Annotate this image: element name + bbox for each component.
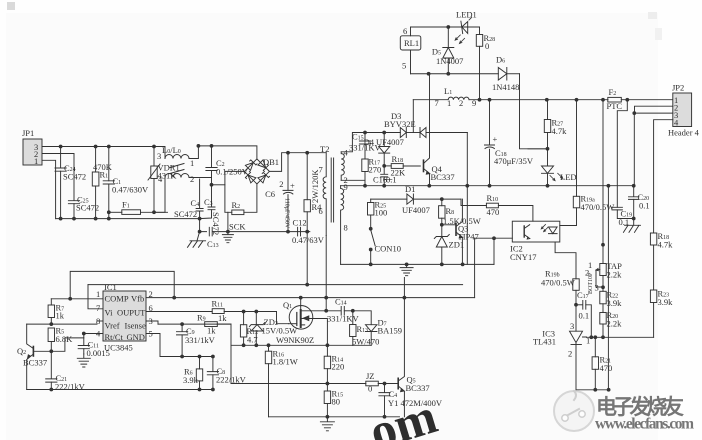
svg-text:9: 9 bbox=[344, 182, 348, 192]
svg-text:0: 0 bbox=[368, 384, 372, 394]
svg-text:470/0.5W: 470/0.5W bbox=[541, 278, 575, 288]
svg-text:6: 6 bbox=[319, 206, 323, 216]
wire R9 down to JZ line bbox=[230, 324, 232, 383]
signal ground (C11) bbox=[77, 354, 90, 367]
wire choke pin4 down to F1 line bbox=[154, 178, 165, 212]
wire feedback top loop bbox=[70, 271, 174, 298]
LED inside bbox=[541, 225, 548, 232]
svg-text:TL431: TL431 bbox=[533, 337, 556, 347]
resistor R28 0ohm bbox=[476, 27, 495, 100]
svg-text:+: + bbox=[290, 181, 295, 191]
transformer T2 bbox=[319, 144, 349, 264]
svg-text:IC1: IC1 bbox=[104, 282, 117, 292]
svg-text:100: 100 bbox=[375, 208, 388, 218]
svg-text:470/0.5W: 470/0.5W bbox=[581, 202, 615, 212]
svg-text:220: 220 bbox=[332, 362, 345, 372]
svg-text:1k: 1k bbox=[207, 326, 216, 336]
svg-text:1k: 1k bbox=[56, 311, 65, 321]
svg-text:C6: C6 bbox=[265, 189, 275, 199]
svg-text:Rt/Ct: Rt/Ct bbox=[105, 332, 124, 342]
svg-text:80: 80 bbox=[332, 397, 341, 407]
transistor Q2 BC337 bbox=[17, 324, 51, 389]
svg-text:5: 5 bbox=[402, 61, 406, 71]
resistor R19b 470/0.5W bbox=[541, 269, 579, 332]
wire divider tap from F2 input bbox=[602, 100, 604, 245]
svg-text:1.8/1W: 1.8/1W bbox=[273, 357, 298, 367]
capacitor C16 0.1 bbox=[373, 166, 397, 186]
dual diode D3 BYV32E bbox=[384, 111, 467, 138]
resistor R21 470 bbox=[592, 337, 612, 390]
svg-text:1: 1 bbox=[34, 156, 38, 166]
svg-text:4.7k: 4.7k bbox=[552, 126, 568, 136]
wire aux C12 node down to Vcc line bbox=[306, 232, 308, 285]
capacitor C9 331/1kV bbox=[177, 324, 216, 356]
watermark text elecfans bbox=[595, 395, 694, 433]
svg-text:SC472: SC472 bbox=[63, 172, 86, 182]
T2 primary winding bbox=[323, 153, 326, 236]
svg-text:222/1kV: 222/1kV bbox=[55, 382, 86, 392]
signal ground symbol bbox=[400, 264, 413, 275]
svg-text:BC337: BC337 bbox=[431, 172, 455, 182]
wire Isense pin3 bbox=[146, 321, 158, 324]
svg-text:BYV32E: BYV32E bbox=[384, 119, 416, 129]
capacitor C25 bbox=[68, 195, 99, 219]
wire JP1 pin1 down to bottom rail bbox=[42, 160, 56, 218]
LED output indicator bbox=[542, 149, 577, 186]
varistor VDR1 431K bbox=[148, 147, 180, 213]
wire Rt/Ct pin4 bbox=[84, 333, 103, 335]
wire Vref pin8 stub bbox=[97, 320, 103, 322]
wire T2 pin2 line bbox=[341, 179, 365, 181]
svg-text:3: 3 bbox=[570, 321, 574, 331]
capacitor C1 0.47/630V bbox=[103, 147, 149, 219]
wire Q2 base node to Rt/Ct bbox=[51, 334, 84, 352]
MOSFET Q1 W9NK90Z bbox=[276, 300, 314, 345]
svg-text:C12: C12 bbox=[293, 218, 307, 228]
resistor R11 1k bbox=[212, 299, 277, 324]
svg-text:ZD1: ZD1 bbox=[449, 240, 465, 250]
wire R19a to IC2 pin1 bbox=[560, 208, 577, 226]
capacitor C4 Y1 472M/400V bbox=[379, 384, 443, 419]
svg-text:0.47/630V: 0.47/630V bbox=[112, 185, 149, 195]
capacitor C18 470uF/35V bbox=[485, 100, 534, 186]
jumper JZ 0 bbox=[366, 371, 393, 394]
chassis ground (left of C13) bbox=[188, 232, 206, 248]
resistor R22 3.9k bbox=[600, 276, 622, 309]
switch CON10 bbox=[369, 227, 401, 264]
wire bridge right to DC+ rail bbox=[269, 153, 326, 172]
optocoupler IC2 CNY17 bbox=[510, 221, 560, 262]
wire output rail down (return) bbox=[607, 186, 609, 390]
svg-text:RL1: RL1 bbox=[404, 38, 419, 48]
resistor R18b 4.7k bbox=[650, 231, 673, 290]
svg-text:0: 0 bbox=[485, 41, 489, 51]
svg-text:1k: 1k bbox=[218, 313, 227, 323]
svg-text:331/1kV: 331/1kV bbox=[185, 335, 216, 345]
svg-text:LED1: LED1 bbox=[456, 10, 477, 20]
svg-text:GND: GND bbox=[127, 332, 145, 342]
resistor R18 22K bbox=[384, 154, 420, 178]
resistor R12 4.7 bbox=[240, 312, 258, 346]
output line L1 to F2 bbox=[469, 99, 608, 101]
T2 upper secondary bbox=[341, 152, 344, 181]
capacitor C2 0.1/250V bbox=[206, 146, 249, 186]
svg-text:W9NK90Z: W9NK90Z bbox=[276, 335, 314, 345]
svg-text:1N4007: 1N4007 bbox=[436, 56, 463, 66]
svg-text:4.7k: 4.7k bbox=[658, 240, 674, 250]
svg-text:0.0015: 0.0015 bbox=[87, 348, 110, 358]
wire AC-B riser / bridge left bbox=[225, 171, 245, 212]
IC U1 UC3845 bbox=[96, 282, 153, 353]
chassis ground (secondary) bbox=[624, 219, 641, 233]
svg-text:470: 470 bbox=[487, 207, 500, 217]
svg-text:SCK: SCK bbox=[229, 222, 246, 232]
svg-text:PTC: PTC bbox=[607, 101, 623, 111]
svg-text:270: 270 bbox=[369, 165, 382, 175]
zener ZD1 bbox=[434, 225, 464, 265]
svg-text:0.1: 0.1 bbox=[579, 311, 590, 321]
wire JP2 pin4 bbox=[654, 120, 673, 233]
transistor Q3 TIP47 bbox=[442, 199, 479, 264]
capacitor C24 bbox=[55, 147, 86, 219]
resistor R20 2.2k bbox=[600, 304, 622, 338]
wire relay top to LED1/R28 bbox=[411, 26, 480, 28]
svg-text:3: 3 bbox=[157, 151, 161, 161]
wire T2 pin4 up to D3 line bbox=[341, 133, 400, 152]
JZ line (current sense) bbox=[231, 383, 366, 385]
svg-text:BC337: BC337 bbox=[23, 358, 47, 368]
svg-text:JP2: JP2 bbox=[672, 83, 684, 93]
wire F2 out jog to C19 bbox=[617, 100, 627, 208]
wire drain stub bbox=[300, 298, 302, 306]
wire D3 node down to output rail bbox=[466, 133, 468, 265]
transistor Q5 BC337 bbox=[378, 278, 429, 417]
svg-text:1N4148: 1N4148 bbox=[492, 82, 519, 92]
source line bbox=[231, 344, 353, 346]
wire choke pin2 to C2 column bbox=[189, 177, 212, 179]
wire JP1 pin2 down via C25 bbox=[42, 154, 74, 201]
svg-text:D4: D4 bbox=[364, 137, 375, 147]
svg-text:CNY17: CNY17 bbox=[510, 252, 536, 262]
connector JP1 bbox=[22, 128, 42, 166]
svg-text:OUPUT: OUPUT bbox=[117, 308, 146, 318]
capacitor C6 110uF/450V bbox=[265, 153, 295, 233]
wire GND pin5 bbox=[146, 334, 213, 357]
svg-text:7: 7 bbox=[319, 165, 323, 175]
svg-text:2.2k: 2.2k bbox=[607, 270, 623, 280]
wire T2 pin6 column lower part bbox=[325, 298, 327, 311]
wire T2 pin6 drain column bbox=[325, 236, 327, 298]
secondary ground rail bbox=[341, 263, 494, 265]
svg-text:BOT10P: BOT10P bbox=[588, 272, 594, 294]
resistor R19a 470/0.5W bbox=[573, 100, 614, 212]
svg-text:331/1KV: 331/1KV bbox=[327, 314, 360, 324]
wire R27 bottom line to left bbox=[528, 148, 548, 150]
wire COMP pin1 bbox=[51, 298, 103, 300]
svg-text:UF4007: UF4007 bbox=[402, 205, 430, 215]
diode D4 UF4007 bbox=[364, 133, 404, 168]
wire Q4 collector up to relay node bbox=[429, 74, 431, 156]
wire JP1 pin3 to choke (line N top) bbox=[42, 147, 165, 159]
svg-text:1: 1 bbox=[96, 289, 100, 299]
svg-text:2.2k: 2.2k bbox=[607, 319, 623, 329]
svg-text:0.47/63V: 0.47/63V bbox=[292, 235, 325, 245]
wire source jog bbox=[311, 319, 328, 346]
svg-text:1: 1 bbox=[190, 158, 194, 168]
svg-text:15V/0.5W: 15V/0.5W bbox=[262, 326, 298, 336]
fuse F1 bbox=[107, 200, 167, 215]
svg-text:SC472: SC472 bbox=[174, 209, 197, 219]
phototransistor inside bbox=[523, 226, 525, 237]
resistor R23 3.9k bbox=[650, 289, 673, 338]
capacitor C20 0.1 bbox=[629, 186, 650, 220]
watermark logo circle bbox=[554, 391, 594, 431]
svg-text:110μF/450V: 110μF/450V bbox=[284, 198, 290, 229]
svg-text:Vref: Vref bbox=[105, 321, 120, 331]
svg-text:2: 2 bbox=[568, 349, 572, 359]
svg-text:JP1: JP1 bbox=[22, 128, 34, 138]
bottom right ground rail bbox=[576, 389, 609, 391]
svg-text:+: + bbox=[493, 134, 498, 144]
resistor R5 6.8K bbox=[48, 326, 73, 353]
svg-text:3.9k: 3.9k bbox=[607, 298, 623, 308]
capacitor C13 bbox=[207, 227, 219, 249]
bottom rail (source network) bbox=[269, 416, 400, 418]
resistor R27 4.7k bbox=[544, 100, 567, 151]
svg-text:Isense: Isense bbox=[125, 321, 146, 331]
T2 lower secondary bbox=[341, 186, 344, 265]
primary ground line with C13 bbox=[200, 219, 310, 232]
wire Vfb long line bbox=[146, 297, 475, 299]
svg-text:6.8K: 6.8K bbox=[56, 334, 74, 344]
svg-text:470μF/35V: 470μF/35V bbox=[494, 156, 534, 166]
wire OUTPUT pin6 bbox=[146, 311, 212, 313]
thermistor SCK drop bbox=[227, 212, 229, 231]
capacitor C15 331/1KV bbox=[349, 132, 382, 160]
svg-text:COMP: COMP bbox=[105, 294, 129, 304]
relay RL1 bbox=[400, 26, 421, 74]
resistor R14 220 bbox=[324, 345, 344, 385]
wire JP2 pin2/pin3 bbox=[635, 106, 673, 113]
resistor R17 270 bbox=[362, 157, 381, 186]
svg-text:JZ: JZ bbox=[366, 371, 375, 381]
svg-text:0.1: 0.1 bbox=[639, 201, 650, 211]
trimmer TAP 2.2k bbox=[585, 245, 622, 294]
svg-text:DB1: DB1 bbox=[263, 157, 279, 167]
svg-text:3.9k: 3.9k bbox=[658, 297, 674, 307]
svg-text:Header 4: Header 4 bbox=[668, 128, 700, 138]
zener ZD2 15V/0.5W bbox=[249, 312, 297, 346]
wire gate bbox=[277, 312, 289, 324]
resistor R8 1.5K/0.5W bbox=[439, 199, 481, 226]
svg-text:CON10: CON10 bbox=[375, 244, 401, 254]
shunt reference IC3 TL431 bbox=[533, 321, 590, 390]
wire Vi pin7 bbox=[88, 285, 103, 309]
watermark diagonal .com bbox=[363, 387, 443, 440]
resistor R16 1.8/1W bbox=[265, 345, 297, 417]
bridge rectifier DB1 bbox=[244, 157, 279, 184]
svg-text:2: 2 bbox=[190, 174, 194, 184]
capacitor C8 222/1kV bbox=[207, 355, 246, 391]
svg-text:Vfb: Vfb bbox=[131, 294, 144, 304]
inductor L1 bbox=[413, 86, 476, 108]
wire IC2 emitter left to ground rail bbox=[475, 237, 513, 239]
resistor R7 1k bbox=[48, 299, 65, 324]
resistor R13 5W/470 bbox=[350, 309, 380, 346]
capacitor C17 0.1 bbox=[576, 290, 591, 337]
SCK thermistor label + ground bbox=[222, 222, 246, 243]
T2 core bbox=[331, 158, 333, 222]
diode D6 1N4148 bbox=[492, 55, 520, 93]
TL431 ref line bbox=[587, 336, 654, 338]
diode D5 1N4007 bbox=[432, 27, 464, 74]
transistor Q4 BC337 bbox=[424, 156, 455, 186]
wire L1 left down to D3 line bbox=[412, 100, 414, 133]
fuse F2 PTC bbox=[607, 87, 673, 111]
capacitor C11 0.0015 bbox=[78, 338, 110, 358]
wire C2 bottom to AC-B riser bbox=[212, 184, 225, 186]
wire Vfb riser bbox=[474, 238, 476, 297]
connector JP2 bbox=[668, 83, 700, 138]
capacitor C12 0.47/63V bbox=[292, 218, 325, 246]
bottom-left ground rail bbox=[27, 389, 213, 391]
capacitor C21 222/1kV bbox=[46, 351, 86, 391]
signal ground (bottom) bbox=[320, 417, 334, 431]
svg-text:www.elecfans.com: www.elecfans.com bbox=[595, 416, 694, 433]
svg-text:2: 2 bbox=[459, 98, 463, 108]
diode D1 UF4007 bbox=[371, 184, 461, 215]
wire D6 down to R27 bottom node bbox=[520, 74, 548, 149]
svg-text:Vi: Vi bbox=[105, 308, 114, 318]
svg-text:8: 8 bbox=[344, 223, 348, 233]
resistor R4 2W/120K bbox=[304, 153, 322, 233]
Vcc line (pin7 aux) bbox=[88, 284, 463, 286]
bottom-left rail bbox=[56, 218, 200, 220]
diode D7 BA159 bbox=[353, 311, 402, 346]
page corner artifact bbox=[7, 2, 15, 10]
wire Isense/R5 node line bbox=[27, 323, 97, 325]
svg-text:BA159: BA159 bbox=[378, 326, 403, 336]
svg-text:D1: D1 bbox=[405, 184, 415, 194]
resistor R25 100 bbox=[368, 199, 388, 227]
resistor R2 (bridge bottom line) bbox=[225, 184, 257, 215]
capacitor C14 331/1KV bbox=[311, 297, 360, 324]
svg-text:2: 2 bbox=[279, 179, 283, 189]
capacitors C4 / C3 bbox=[174, 179, 203, 219]
common-mode choke L0/L0 bbox=[157, 145, 194, 184]
wire choke pin1 up to AC rail A bbox=[189, 146, 198, 159]
wire IC2 diode cathode to R19b bbox=[555, 242, 576, 279]
relay bottom wire to D6 bbox=[411, 73, 499, 75]
capacitor C19 0.1 bbox=[612, 207, 634, 227]
svg-text:LED: LED bbox=[560, 172, 577, 182]
resistor R1 470K bbox=[92, 147, 112, 219]
svg-text:UF4007: UF4007 bbox=[376, 137, 404, 147]
svg-text:7: 7 bbox=[96, 303, 100, 313]
AC rail A to bridge top bbox=[198, 146, 257, 159]
LED LED1 bbox=[455, 10, 477, 44]
svg-text:3.9k: 3.9k bbox=[183, 375, 199, 385]
resistor R15 80 bbox=[324, 384, 343, 419]
svg-text:T2: T2 bbox=[320, 144, 329, 154]
svg-text:470: 470 bbox=[600, 363, 613, 373]
resistor R6 3.9k bbox=[183, 357, 203, 390]
secondary output rail (pin9) bbox=[341, 185, 634, 187]
resistor R10 470 bbox=[461, 193, 533, 221]
svg-text:3: 3 bbox=[595, 283, 599, 293]
resistor R9 1k bbox=[197, 313, 231, 336]
svg-text:6: 6 bbox=[403, 26, 407, 36]
